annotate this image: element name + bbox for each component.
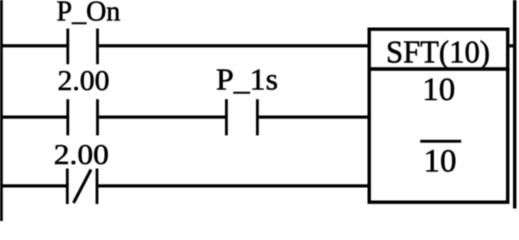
wire rung3 left rail to NC contact 2.00 bbox=[0, 184, 66, 187]
svg-text:P_1s: P_1s bbox=[216, 61, 278, 96]
NC slash bbox=[74, 170, 92, 204]
contact 2.00 (NC) bbox=[66, 169, 69, 205]
contact P_1s (NO) bbox=[225, 99, 228, 135]
svg-text:P_On: P_On bbox=[57, 0, 121, 28]
wire rung2 between contacts bbox=[99, 116, 225, 119]
left power rail bbox=[0, 0, 3, 221]
svg-text:10: 10 bbox=[424, 143, 457, 179]
wire rung1 box to right rail bbox=[508, 44, 514, 47]
overline of reset operand bbox=[420, 140, 461, 143]
SFT(10) function block box U1 bbox=[369, 29, 508, 202]
contact 2.00 (NO) bbox=[66, 99, 69, 135]
svg-text:2.00: 2.00 bbox=[58, 65, 110, 97]
wire rung2 left rail to contact 2.00 bbox=[0, 116, 67, 119]
right power rail bbox=[513, 0, 516, 209]
wire rung3 contact to box bbox=[98, 184, 369, 187]
svg-text:SFT(10): SFT(10) bbox=[386, 33, 490, 69]
wire rung2 contact P_1s to box bbox=[259, 116, 369, 119]
wire rung1 left rail to contact P_On bbox=[0, 44, 67, 47]
SFT box header divider bbox=[368, 67, 510, 71]
svg-text:2.00: 2.00 bbox=[54, 139, 109, 171]
svg-text:10: 10 bbox=[422, 72, 455, 108]
wire rung1 contact to box bbox=[99, 44, 369, 47]
contact P_On bbox=[66, 29, 69, 65]
